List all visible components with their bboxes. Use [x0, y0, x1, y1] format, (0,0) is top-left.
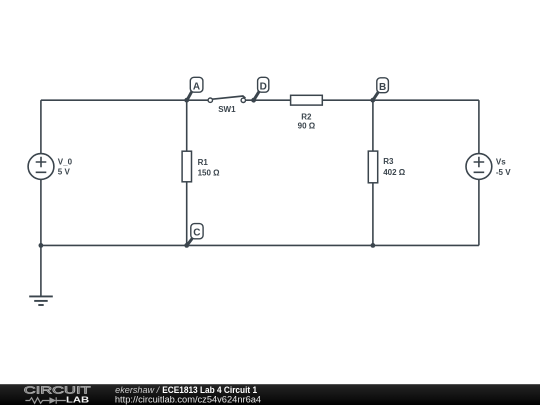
junction ground-node [39, 243, 44, 248]
wire top-right horizontal (switch to Vs) [246, 99, 479, 101]
label R2 value [298, 113, 316, 131]
wire middle rail upper [186, 100, 188, 151]
svg-text:R2: R2 [301, 113, 312, 122]
node B [370, 78, 388, 103]
label R1 value [198, 158, 221, 177]
svg-text:D: D [260, 81, 267, 92]
svg-text:-5 V: -5 V [496, 168, 511, 177]
svg-text:Vs: Vs [496, 158, 506, 167]
wire R3 rail upper [372, 100, 374, 151]
svg-text:LAB: LAB [66, 395, 89, 405]
svg-text:A: A [193, 81, 200, 92]
switch SW1 [208, 96, 245, 103]
node A [184, 77, 203, 102]
footer bar [0, 384, 540, 405]
svg-text:90 Ω: 90 Ω [298, 122, 316, 131]
junction R3-bottom [371, 243, 376, 248]
svg-text:5 V: 5 V [58, 168, 71, 177]
wire ground stem [40, 245, 42, 296]
wire R3 rail lower [372, 183, 374, 246]
label V_0 value [58, 158, 73, 177]
svg-text:402 Ω: 402 Ω [383, 168, 406, 177]
svg-text:R1: R1 [198, 158, 209, 167]
wire right rail upper [478, 100, 480, 153]
wire bottom horizontal [41, 244, 479, 246]
svg-text:B: B [379, 82, 386, 93]
logo zigzag and diode [25, 397, 65, 403]
svg-text:C: C [193, 228, 200, 239]
wire left rail upper [40, 100, 42, 153]
voltage source Vs [466, 154, 492, 180]
ground [29, 296, 53, 305]
resistor R1 [182, 151, 191, 182]
node C [184, 224, 203, 248]
wire middle rail lower [186, 182, 188, 246]
label Vs value [496, 158, 511, 178]
svg-text:R3: R3 [383, 157, 394, 166]
svg-text:SW1: SW1 [218, 105, 236, 114]
svg-text:http://circuitlab.com/cz54v624: http://circuitlab.com/cz54v624nr6a4 [115, 394, 261, 404]
resistor R3 [368, 151, 377, 183]
resistor R2 [291, 95, 323, 105]
wire left rail lower [40, 180, 42, 246]
voltage source V_0 [28, 154, 54, 180]
svg-text:150 Ω: 150 Ω [198, 168, 221, 177]
wire right rail lower [478, 180, 480, 246]
node D [251, 77, 269, 102]
svg-text:V_0: V_0 [58, 158, 73, 167]
wire top-left horizontal (V_0 top to switch) [41, 99, 208, 101]
label R3 value [383, 157, 406, 177]
